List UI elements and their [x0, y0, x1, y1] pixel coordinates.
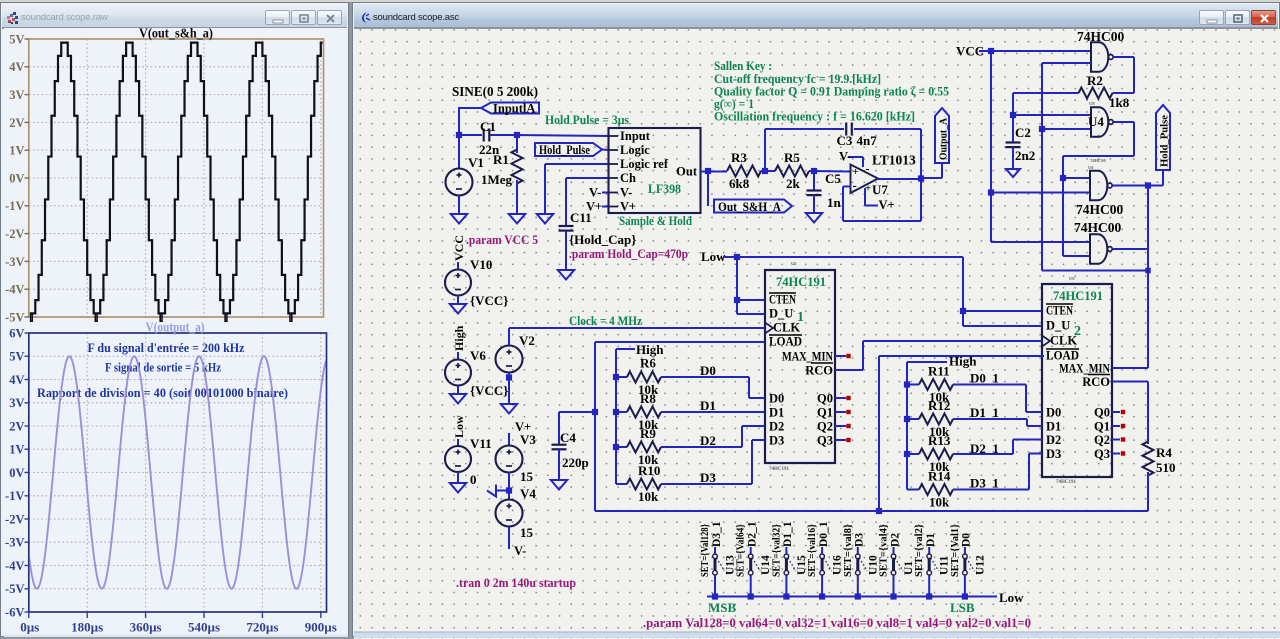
- svg-text:V(output_a): V(output_a): [146, 320, 205, 335]
- svg-text:1: 1: [797, 310, 804, 325]
- svg-text:R1: R1: [493, 152, 509, 167]
- svg-text:D2: D2: [889, 533, 901, 547]
- svg-text:CTEN: CTEN: [1046, 304, 1073, 318]
- svg-text:D0_1: D0_1: [970, 371, 999, 386]
- svg-text:C5: C5: [825, 171, 841, 186]
- svg-text:D1: D1: [925, 533, 937, 547]
- svg-text:U6: U6: [1088, 165, 1094, 170]
- svg-text:-4V: -4V: [5, 559, 24, 573]
- svg-text:74HC191: 74HC191: [1056, 480, 1077, 485]
- svg-text:SET={Val64}: SET={Val64}: [736, 524, 747, 577]
- svg-text:SET={val16}: SET={val16}: [807, 524, 818, 577]
- svg-text:74HC191: 74HC191: [776, 274, 826, 289]
- svg-text:0: 0: [470, 472, 477, 487]
- svg-text:{Hold_Cap}: {Hold_Cap}: [569, 232, 636, 247]
- svg-text:D2: D2: [1046, 433, 1061, 447]
- svg-text:6V: 6V: [9, 326, 24, 340]
- svg-text:C4: C4: [560, 430, 576, 445]
- svg-text:-1V: -1V: [5, 489, 24, 503]
- svg-text:4n7: 4n7: [857, 133, 878, 148]
- svg-text:Q1: Q1: [817, 406, 833, 420]
- svg-text:Logic ref: Logic ref: [620, 157, 669, 171]
- svg-text:Q3: Q3: [817, 434, 833, 448]
- svg-text:R6: R6: [640, 356, 656, 371]
- svg-text:MAX_MIN: MAX_MIN: [1059, 362, 1110, 376]
- svg-text:720µs: 720µs: [246, 620, 278, 635]
- svg-text:2V: 2V: [9, 419, 24, 433]
- svg-text:1V: 1V: [9, 443, 24, 457]
- svg-text:V6: V6: [470, 348, 486, 363]
- svg-text:5V: 5V: [9, 350, 24, 364]
- svg-text:.param Val128=0 val64=0 val32=: .param Val128=0 val64=0 val32=1 val16=0 …: [643, 616, 1031, 630]
- svg-text:LT1013: LT1013: [872, 153, 916, 168]
- svg-text:SET={val8}: SET={val8}: [843, 524, 854, 577]
- svg-text:D1_1: D1_1: [970, 405, 999, 420]
- svg-text:Low: Low: [701, 249, 726, 264]
- svg-text:1n: 1n: [827, 195, 842, 210]
- svg-text:Hold_Pulse: Hold_Pulse: [539, 143, 590, 157]
- svg-text:V+: V+: [586, 200, 602, 214]
- svg-text:R3: R3: [731, 150, 747, 165]
- svg-text:VCC: VCC: [452, 235, 466, 261]
- svg-text:D1: D1: [700, 398, 716, 413]
- svg-text:.param Hold_Cap=470p: .param Hold_Cap=470p: [569, 247, 688, 261]
- svg-text:Out: Out: [676, 165, 698, 179]
- svg-text:74HC00: 74HC00: [1090, 158, 1107, 163]
- svg-text:6k8: 6k8: [729, 176, 750, 191]
- svg-text:U7: U7: [872, 182, 888, 197]
- svg-text:.param VCC 5: .param VCC 5: [466, 233, 538, 247]
- svg-text:U4: U4: [1088, 114, 1104, 129]
- svg-text:1Meg: 1Meg: [481, 172, 513, 187]
- svg-text:R4: R4: [1156, 445, 1172, 460]
- svg-text:-5V: -5V: [5, 582, 24, 596]
- svg-text:U1: U1: [903, 561, 915, 575]
- svg-text:-1V: -1V: [5, 199, 24, 213]
- svg-text:-3V: -3V: [5, 536, 24, 550]
- svg-text:R11: R11: [928, 364, 950, 379]
- svg-text:V-: V-: [514, 544, 526, 558]
- svg-text:U16: U16: [832, 555, 844, 575]
- svg-text:SINE(0 5 200k): SINE(0 5 200k): [452, 84, 538, 99]
- svg-text:-2V: -2V: [5, 512, 24, 526]
- svg-text:R8: R8: [640, 391, 656, 406]
- svg-text:SET={val2}: SET={val2}: [914, 524, 925, 577]
- svg-text:360µs: 360µs: [130, 620, 162, 635]
- svg-text:D3: D3: [1046, 447, 1061, 461]
- svg-text:D1_1: D1_1: [782, 521, 794, 547]
- svg-text:D1: D1: [769, 406, 784, 420]
- svg-text:High: High: [949, 354, 977, 369]
- svg-text:SET={Val1}: SET={Val1}: [950, 524, 961, 577]
- svg-text:C3: C3: [837, 133, 853, 148]
- svg-text:V2: V2: [519, 333, 535, 348]
- svg-text:U5: U5: [791, 261, 797, 266]
- svg-text:D2_1: D2_1: [747, 521, 759, 547]
- svg-text:C1: C1: [480, 119, 496, 134]
- svg-text:Rapport de division = 40 (soit: Rapport de division = 40 (soit 00101000 …: [37, 385, 288, 400]
- svg-text:Q0: Q0: [817, 392, 833, 406]
- svg-text:Q0: Q0: [1094, 406, 1110, 420]
- svg-text:F du signal d'entrée = 200 kHz: F du signal d'entrée = 200 kHz: [88, 340, 245, 355]
- svg-text:Q2: Q2: [1094, 433, 1110, 447]
- svg-text:.tran 0 2m 140u startup: .tran 0 2m 140u startup: [456, 576, 576, 590]
- svg-text:Low: Low: [452, 415, 466, 438]
- svg-text:V-: V-: [839, 150, 851, 164]
- svg-text:74HC191: 74HC191: [1053, 288, 1103, 303]
- svg-text:C2: C2: [1015, 125, 1031, 140]
- svg-text:10k: 10k: [929, 495, 950, 510]
- svg-text:4V: 4V: [9, 60, 24, 74]
- svg-text:LOAD: LOAD: [1046, 349, 1079, 363]
- svg-text:3V: 3V: [9, 396, 24, 410]
- svg-text:Low: Low: [999, 590, 1024, 605]
- svg-text:U10: U10: [867, 555, 879, 575]
- svg-text:{VCC}: {VCC}: [470, 383, 508, 398]
- svg-text:Input: Input: [620, 129, 651, 143]
- svg-text:4V: 4V: [9, 373, 24, 387]
- svg-text:V+: V+: [879, 198, 895, 212]
- svg-text:SET={val32}: SET={val32}: [771, 524, 782, 577]
- svg-text:Q1: Q1: [1094, 420, 1110, 434]
- svg-text:0V: 0V: [9, 466, 24, 480]
- svg-text:U11: U11: [939, 556, 951, 575]
- svg-text:Hold Pulse = 3µs: Hold Pulse = 3µs: [545, 112, 629, 127]
- svg-text:D1: D1: [1046, 420, 1061, 434]
- svg-text:U14: U14: [760, 555, 772, 575]
- svg-text:V4: V4: [520, 486, 536, 501]
- svg-text:R9: R9: [640, 426, 656, 441]
- svg-text:D_U: D_U: [769, 307, 793, 321]
- svg-text:2n2: 2n2: [1015, 148, 1035, 163]
- svg-text:Q3: Q3: [1094, 447, 1110, 461]
- svg-text:R2: R2: [1087, 73, 1103, 88]
- svg-text:LSB: LSB: [950, 600, 975, 615]
- svg-text:-: -: [853, 178, 857, 193]
- svg-text:74HC00: 74HC00: [1074, 220, 1122, 235]
- svg-text:High: High: [452, 325, 466, 351]
- svg-text:D3: D3: [769, 434, 784, 448]
- svg-text:-: -: [866, 162, 870, 176]
- svg-text:RCO: RCO: [805, 364, 833, 378]
- svg-text:R13: R13: [928, 433, 951, 448]
- svg-text:V(out_s&h_a): V(out_s&h_a): [139, 28, 213, 41]
- svg-text:D0: D0: [769, 392, 784, 406]
- svg-text:R12: R12: [928, 398, 950, 413]
- svg-text:510: 510: [1156, 460, 1176, 475]
- svg-text:V10: V10: [470, 257, 492, 272]
- svg-text:D_U: D_U: [1046, 319, 1070, 333]
- svg-text:RCO: RCO: [1082, 375, 1110, 389]
- svg-text:D2: D2: [700, 433, 716, 448]
- svg-text:D3: D3: [700, 470, 716, 485]
- svg-text:220p: 220p: [562, 455, 589, 470]
- svg-text:Hold_Pulse: Hold_Pulse: [1160, 115, 1171, 167]
- svg-text:Ch: Ch: [620, 171, 636, 185]
- svg-text:V1: V1: [468, 155, 484, 170]
- svg-text:D0: D0: [961, 533, 973, 547]
- svg-text:SET={val4}: SET={val4}: [879, 524, 890, 577]
- svg-text:74HC191: 74HC191: [769, 467, 790, 472]
- svg-text:V3: V3: [520, 432, 536, 447]
- svg-text:1V: 1V: [9, 144, 24, 158]
- svg-text:1k8: 1k8: [1109, 95, 1130, 110]
- svg-text:SET={Val128}: SET={Val128}: [700, 524, 711, 577]
- svg-text:R5: R5: [784, 150, 800, 165]
- svg-text:U15: U15: [796, 555, 808, 575]
- svg-text:Sample & Hold: Sample & Hold: [619, 213, 693, 228]
- svg-text:-4V: -4V: [5, 283, 24, 297]
- svg-text:180µs: 180µs: [71, 620, 103, 635]
- svg-text:0V: 0V: [9, 171, 24, 185]
- svg-text:LOAD: LOAD: [769, 335, 802, 349]
- svg-text:74HC00: 74HC00: [1076, 202, 1124, 217]
- svg-text:+: +: [853, 166, 859, 178]
- svg-text:CTEN: CTEN: [769, 293, 796, 307]
- svg-text:U9: U9: [1069, 276, 1075, 281]
- svg-text:Out_S&H_A: Out_S&H_A: [718, 200, 781, 214]
- svg-text:V-: V-: [620, 186, 632, 200]
- svg-text:-5V: -5V: [5, 310, 24, 324]
- svg-text:V-: V-: [589, 186, 601, 200]
- svg-text:U13: U13: [725, 555, 737, 575]
- svg-text:15: 15: [520, 525, 534, 540]
- svg-text:10k: 10k: [638, 489, 659, 504]
- svg-text:MSB: MSB: [708, 600, 737, 615]
- svg-text:D3_1: D3_1: [711, 521, 723, 547]
- svg-text:-6V: -6V: [5, 605, 24, 619]
- svg-text:Oscillation frequency : f = 16: Oscillation frequency : f = 16.620 [kHz]: [714, 109, 915, 124]
- svg-text:D0: D0: [1046, 406, 1061, 420]
- svg-text:5V: 5V: [9, 32, 24, 46]
- svg-text:3V: 3V: [9, 88, 24, 102]
- svg-text:{VCC}: {VCC}: [470, 293, 508, 308]
- svg-text:R10: R10: [638, 463, 660, 478]
- svg-text:0µs: 0µs: [20, 620, 39, 635]
- svg-text:MAX_MIN: MAX_MIN: [782, 350, 833, 364]
- svg-text:U8: U8: [1089, 101, 1095, 106]
- svg-text:D2: D2: [769, 420, 784, 434]
- svg-text:LF398: LF398: [648, 181, 681, 196]
- svg-text:2V: 2V: [9, 116, 24, 130]
- svg-text:V11: V11: [470, 436, 492, 451]
- svg-text:-2V: -2V: [5, 227, 24, 241]
- svg-text:-3V: -3V: [5, 255, 24, 269]
- svg-text:900µs: 900µs: [305, 620, 337, 635]
- svg-text:D3: D3: [854, 533, 866, 547]
- svg-text:D3_1: D3_1: [970, 476, 999, 491]
- svg-text:Output_A: Output_A: [938, 118, 950, 160]
- svg-text:InputlA: InputlA: [493, 102, 535, 116]
- svg-text:Clock = 4 MHz: Clock = 4 MHz: [569, 313, 642, 328]
- svg-text:R14: R14: [928, 469, 951, 484]
- svg-text:2: 2: [1074, 324, 1081, 339]
- svg-text:2k: 2k: [786, 176, 801, 191]
- svg-text:15: 15: [520, 469, 534, 484]
- svg-text:D0_1: D0_1: [818, 521, 830, 547]
- svg-text:Q2: Q2: [817, 420, 833, 434]
- svg-text:V+: V+: [620, 200, 636, 214]
- svg-text:U12: U12: [974, 555, 986, 575]
- svg-text:540µs: 540µs: [188, 620, 220, 635]
- svg-text:Logic: Logic: [620, 143, 650, 157]
- svg-text:D0: D0: [700, 363, 716, 378]
